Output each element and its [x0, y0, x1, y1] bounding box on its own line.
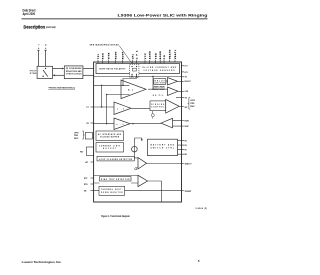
pin PG — [164, 55, 166, 63]
right pin TRGDET — [182, 191, 193, 193]
svg-text:A1: A1 — [128, 88, 134, 91]
chip border — [94, 62, 182, 202]
svg-text:PALP: PALP — [74, 137, 79, 140]
pin VITR — [109, 52, 111, 63]
svg-text:VOLTAGE BUFFER: VOLTAGE BUFFER — [100, 136, 120, 139]
pin RCVN — [116, 51, 118, 63]
current limit box — [96, 143, 124, 153]
op-amp A3 — [114, 118, 130, 130]
left cap box FILT — [80, 147, 94, 156]
svg-text:RS: RS — [185, 145, 187, 147]
op-amp A7 (left pointing) — [161, 118, 182, 128]
svg-text:DOWN MONITOR: DOWN MONITOR — [101, 192, 123, 194]
svg-text:AC INTERFACE AND: AC INTERFACE AND — [98, 133, 122, 136]
right pin VN — [176, 98, 188, 100]
svg-text:RSN: RSN — [103, 53, 105, 59]
loop closure detector box — [97, 156, 134, 161]
svg-text:LPV: LPV — [185, 72, 189, 74]
svg-text:VBATH: VBATH — [169, 49, 172, 59]
svg-text:x -1: x -1 — [117, 124, 125, 126]
svg-text:RCVN: RCVN — [116, 51, 118, 59]
right pin RGOUT — [182, 81, 192, 83]
svg-text:RESISTORS AND: RESISTORS AND — [66, 70, 82, 73]
svg-text:TN: TN — [185, 77, 188, 79]
svg-text:PT: PT — [38, 43, 40, 49]
svg-text:BGND: BGND — [160, 51, 162, 59]
wire PB2 to PB1 lower with arrow — [53, 74, 65, 76]
svg-text:LOOP CLOSURE DETECTOR: LOOP CLOSURE DETECTOR — [99, 159, 133, 161]
left bracket group with cap box — [74, 131, 94, 140]
wire thermal to pin — [91, 190, 182, 192]
svg-text:BR: BR — [185, 154, 188, 156]
summing node — [132, 138, 143, 158]
svg-text:AGND: AGND — [149, 51, 152, 59]
node RING label — [46, 44, 48, 49]
svg-text:RING TRIP DETECTOR: RING TRIP DETECTOR — [101, 179, 130, 181]
pin AGND — [149, 51, 152, 64]
wire PB2 to chip upper — [83, 68, 94, 70]
svg-text:TRGDET: TRGDET — [185, 191, 193, 193]
svg-text:VITR: VITR — [109, 52, 111, 59]
footer company — [22, 260, 62, 264]
svg-text:NTWK: NTWK — [30, 73, 37, 75]
input shaper box — [150, 101, 166, 111]
pin VEE — [156, 53, 158, 64]
svg-text:VCC: VCC — [145, 53, 147, 59]
thermal shutdown box — [99, 186, 125, 195]
right pin RGIN — [182, 121, 190, 123]
right pin LPV — [182, 72, 189, 74]
left pin TSD — [84, 191, 87, 193]
caption — [101, 214, 130, 218]
svg-text:PG: PG — [164, 55, 166, 59]
wire A1 output — [148, 77, 168, 90]
svg-text:ADJUST: ADJUST — [103, 147, 116, 150]
svg-text:BATTERY AND: BATTERY AND — [151, 144, 175, 147]
pin VCC — [145, 53, 147, 64]
svg-text:RTP: RTP — [84, 178, 88, 180]
pin VBATL — [174, 49, 177, 62]
svg-text:BUFF RATIO POLARITY: BUFF RATIO POLARITY — [100, 68, 127, 71]
op-amp A9 — [94, 175, 162, 202]
op-amp A5 — [168, 87, 182, 96]
ground circle under shaper — [151, 111, 154, 119]
svg-text:PWD: PWD — [74, 135, 79, 137]
op-amp A1 — [121, 80, 146, 99]
svg-text:Description: Description — [24, 24, 46, 29]
wire PB1 to PB2 upper with arrow — [53, 68, 65, 70]
svg-text:x -1: x -1 — [117, 108, 125, 110]
svg-text:PT: PT — [87, 107, 90, 109]
svg-text:GS P/L: GS P/L — [153, 95, 164, 97]
wire row under top box — [94, 76, 182, 77]
wire A2 input (PT row) — [94, 106, 114, 108]
svg-text:PR: PR — [46, 44, 48, 49]
header: Data Sheet — [23, 8, 37, 12]
svg-text:Lucent Technologies Inc.: Lucent Technologies Inc. — [22, 260, 62, 264]
pin RSN — [103, 53, 105, 64]
op-amp A8 — [134, 158, 181, 170]
svg-text:SB: SB — [84, 191, 87, 193]
op-amp A6 — [166, 99, 182, 113]
svg-text:LPFN: LPFN — [74, 132, 79, 134]
svg-text:DRIVER: DRIVER — [155, 83, 166, 85]
magnified detail dashed box — [130, 65, 139, 78]
op-amp A2 — [114, 102, 131, 115]
svg-text:LPFN: LPFN — [190, 100, 195, 102]
svg-text:CF1: CF1 — [133, 54, 135, 60]
svg-text:PWD: PWD — [190, 103, 195, 105]
header rule — [22, 17, 208, 20]
node TIP label — [38, 43, 40, 49]
svg-text:RGIP: RGIP — [185, 126, 190, 128]
footer page number — [198, 259, 200, 263]
ring trip detector box — [100, 177, 132, 182]
wire corner to lower amps — [101, 85, 129, 125]
svg-text:THERMAL SHUT-: THERMAL SHUT- — [101, 188, 123, 191]
header: title right — [118, 13, 208, 17]
svg-text:RGOUT: RGOUT — [185, 81, 192, 83]
op-amp A4 — [166, 78, 182, 86]
wire TIP vertical — [37, 50, 39, 66]
pin BGND — [160, 51, 162, 64]
svg-text:VOLTAGE SENSORS: VOLTAGE SENSORS — [144, 69, 176, 72]
svg-text:VEE: VEE — [156, 53, 158, 60]
battery switch box — [148, 139, 178, 155]
right pin RGIP — [182, 126, 190, 128]
svg-text:RTN: RTN — [84, 184, 88, 186]
svg-text:(continued): (continued) — [46, 25, 56, 29]
pin VBATH — [169, 49, 172, 62]
left pin RTTN — [84, 184, 94, 186]
svg-text:RELAY: RELAY — [155, 79, 166, 82]
svg-text:OVERVOLTAGE: OVERVOLTAGE — [66, 72, 82, 75]
pin CF1 — [133, 54, 135, 64]
svg-text:CF2: CF2 — [137, 50, 139, 59]
wire RING vertical — [44, 50, 46, 66]
svg-text:SEE MAGNIFIED DETAIL: SEE MAGNIFIED DETAIL — [90, 44, 121, 47]
svg-text:5: 5 — [198, 259, 200, 263]
right pin LP1 — [182, 66, 188, 68]
svg-text:TXI: TXI — [98, 54, 100, 59]
right pin TN — [182, 77, 188, 79]
pin TXI — [98, 54, 100, 64]
svg-text:Figure 1. Functional diagram: Figure 1. Functional diagram — [101, 214, 130, 218]
svg-text:RINGING: RINGING — [151, 104, 165, 106]
heading: Description (continued) — [24, 24, 56, 29]
right pin INP — [182, 106, 189, 109]
pin RCVP — [123, 51, 125, 63]
svg-text:PALP: PALP — [190, 105, 195, 108]
svg-text:CONTROL: CONTROL — [151, 107, 164, 109]
sense resistor box PB2 — [64, 66, 83, 79]
svg-text:OPS: OPS — [185, 91, 189, 93]
protection box label — [30, 71, 37, 76]
protection note underlined — [48, 87, 75, 89]
left pin PT — [87, 107, 94, 109]
left pin PR — [87, 123, 94, 125]
wire A2 output — [131, 107, 150, 109]
battery caps symbols — [153, 86, 164, 97]
svg-text:RG: RG — [185, 141, 188, 143]
svg-text:CURRENT LIMIT: CURRENT LIMIT — [99, 145, 120, 147]
svg-text:SWITCH CTRL: SWITCH CTRL — [151, 148, 175, 150]
svg-text:VN: VN — [185, 98, 188, 100]
svg-text:IN-LINE CURRENT AND: IN-LINE CURRENT AND — [142, 66, 177, 69]
left pin RTTP — [84, 178, 94, 180]
svg-text:LST: LST — [85, 162, 89, 164]
svg-text:LP1: LP1 — [185, 66, 188, 68]
right pin OPS — [182, 91, 189, 93]
battery pins — [178, 141, 188, 157]
header: April 2000 — [23, 12, 36, 16]
svg-text:RV: RV — [185, 150, 188, 152]
left pin LST — [85, 162, 94, 164]
relay driver box — [154, 79, 166, 85]
svg-text:L9306 Low-Power SLIC with Ring: L9306 Low-Power SLIC with Ringing — [118, 13, 208, 17]
wire PB2 to chip lower — [83, 74, 94, 76]
svg-text:April 2000: April 2000 — [23, 12, 36, 16]
svg-text:VBAT LP: VBAT LP — [185, 163, 193, 166]
svg-text:INP: INP — [185, 107, 189, 109]
see magnified detail note — [90, 44, 133, 64]
top sense box U1 — [96, 64, 180, 74]
ac interface box — [96, 131, 124, 141]
protection box PB1 — [37, 66, 52, 78]
figure number small — [196, 208, 208, 210]
right bracket group — [188, 98, 196, 109]
right pin VBAT LP — [182, 163, 193, 166]
svg-text:RCVP: RCVP — [123, 51, 125, 59]
wire into A1 upper — [94, 74, 137, 86]
svg-text:FILT: FILT — [80, 152, 84, 154]
svg-text:VBATL: VBATL — [174, 49, 177, 59]
svg-text:5-8066 (F): 5-8066 (F) — [196, 208, 208, 210]
wire A3 row (PR row) — [94, 123, 161, 124]
pin CF2 — [137, 50, 139, 63]
svg-text:RGIN: RGIN — [185, 121, 190, 123]
svg-text:PR: PR — [87, 123, 90, 125]
